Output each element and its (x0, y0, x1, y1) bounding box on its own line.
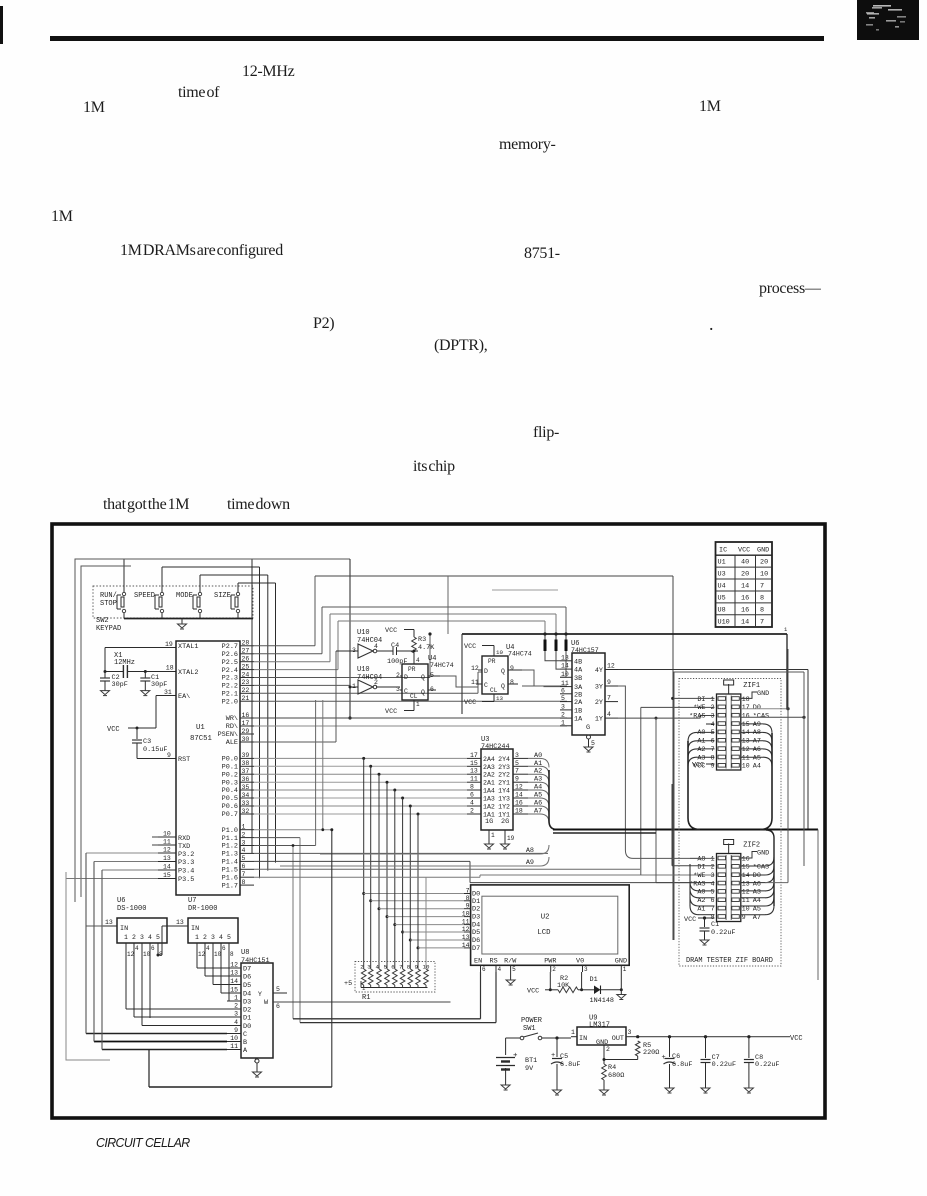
ground C6 (665, 1088, 674, 1093)
svg-text:4A: 4A (574, 667, 583, 675)
pin assignment table (716, 542, 773, 627)
svg-text:R/W: R/W (504, 958, 517, 966)
wire keypad column (162, 567, 260, 878)
svg-text:17: 17 (242, 720, 250, 727)
svg-text:14: 14 (561, 663, 569, 670)
wire P1.4 row (254, 861, 715, 882)
svg-text:4: 4 (711, 880, 715, 887)
svg-text:2: 2 (234, 1003, 238, 1010)
svg-text:A9: A9 (526, 859, 534, 867)
wire ZIF2 left bundle (690, 864, 715, 915)
wire WR net (254, 717, 567, 719)
routing rect left outer (75, 559, 350, 902)
svg-text:1: 1 (561, 719, 565, 726)
LCD bottom pins (474, 958, 627, 974)
ground U3 1G (485, 830, 496, 849)
svg-text:15: 15 (470, 760, 478, 767)
capacitor C1 30pF (140, 672, 167, 691)
svg-text:C6: C6 (672, 1053, 680, 1061)
svg-text:1: 1 (784, 626, 788, 633)
svg-text:30pF: 30pF (112, 681, 128, 689)
svg-text:1: 1 (362, 985, 366, 992)
svg-text:3: 3 (711, 872, 715, 879)
wire P2.2 net (254, 684, 350, 686)
mux U8 74HC151 (227, 949, 451, 1072)
svg-text:9: 9 (607, 679, 611, 686)
wire P1.2 net (254, 700, 316, 1019)
svg-text:D2: D2 (472, 906, 480, 914)
output rail to VCC (636, 1035, 803, 1043)
svg-text:2Y4: 2Y4 (498, 756, 510, 763)
svg-text:C: C (243, 1031, 247, 1039)
svg-text:A8: A8 (697, 855, 705, 863)
svg-text:P0.6: P0.6 (222, 803, 238, 811)
svg-text:ZIF1: ZIF1 (743, 682, 760, 690)
svg-text:1: 1 (711, 696, 715, 703)
wire data drops to LCD and R1 (362, 758, 464, 969)
svg-text:10: 10 (561, 671, 569, 678)
svg-text:U8: U8 (718, 606, 726, 614)
zif socket ZIF2 (689, 840, 769, 922)
svg-text:7: 7 (242, 871, 246, 878)
svg-text:0.22uF: 0.22uF (755, 1061, 779, 1069)
capacitor C5 6.8uF (551, 1038, 580, 1090)
wire P1.3 row (254, 852, 548, 854)
svg-text:P1.6: P1.6 (222, 874, 238, 882)
U1 P3 pins (158, 831, 176, 880)
svg-text:EA\: EA\ (178, 693, 190, 701)
wire RXD TXD (152, 837, 158, 845)
svg-text:STOP: STOP (100, 600, 117, 608)
svg-text:1Y4: 1Y4 (498, 788, 510, 795)
crystal X1 12MHz (114, 652, 135, 678)
svg-text:C: C (484, 682, 488, 689)
svg-text:VCC: VCC (790, 1035, 803, 1043)
resistor network R1 (344, 962, 435, 1003)
svg-text:D5: D5 (243, 982, 251, 990)
svg-text:VCC: VCC (385, 627, 397, 635)
svg-text:1: 1 (623, 966, 627, 973)
svg-text:U2: U2 (541, 914, 550, 922)
svg-text:8: 8 (711, 754, 715, 761)
svg-text:LCD: LCD (537, 929, 551, 937)
svg-text:PR: PR (488, 658, 496, 665)
svg-text:8: 8 (242, 879, 246, 886)
VCC U4b PR (464, 643, 494, 656)
svg-text:GND: GND (757, 850, 769, 858)
wire ZIF2 RAS (656, 882, 715, 884)
svg-text:P0.0: P0.0 (222, 756, 238, 764)
svg-text:13: 13 (230, 970, 238, 977)
svg-text:D1: D1 (472, 898, 480, 906)
wire ZIF1 DI (671, 697, 714, 700)
svg-text:R1: R1 (362, 994, 370, 1002)
svg-text:A6: A6 (753, 880, 761, 888)
svg-text:9: 9 (234, 1027, 238, 1034)
wire ZIF1 right bundle A4-A8 (741, 724, 772, 830)
svg-text:D3: D3 (243, 999, 251, 1007)
ground U6 (584, 747, 593, 752)
svg-text:A0: A0 (697, 729, 705, 737)
wire ZIF1 WE long (641, 707, 715, 875)
svg-text:P0.1: P0.1 (222, 764, 238, 772)
svg-text:11: 11 (230, 1043, 238, 1050)
svg-text:15: 15 (742, 864, 750, 871)
wire P1.1 net (254, 838, 300, 1023)
delay line U7 DR-1000 (174, 897, 238, 958)
svg-text:3: 3 (211, 934, 215, 941)
wire R5 to GND pin (603, 1056, 638, 1061)
wire ZIF1 D0 (741, 707, 790, 710)
svg-text:U10: U10 (357, 666, 370, 674)
svg-text:19: 19 (507, 835, 515, 842)
svg-text:C3: C3 (143, 738, 151, 746)
flipflop U4b 74HC74 (471, 644, 532, 702)
svg-text:2A4: 2A4 (483, 756, 495, 763)
svg-text:P1.7: P1.7 (222, 882, 238, 890)
svg-text:1Y: 1Y (595, 716, 603, 724)
svg-text:3B: 3B (574, 675, 582, 683)
U1 P0 port pins (222, 752, 254, 819)
svg-text:*RAS: *RAS (689, 713, 705, 721)
svg-text:12: 12 (127, 951, 135, 958)
svg-text:4.7K: 4.7K (418, 644, 435, 652)
svg-text:11: 11 (561, 680, 569, 687)
svg-text:+: + (513, 1052, 518, 1060)
svg-text:12: 12 (163, 847, 171, 854)
svg-text:IN: IN (191, 925, 199, 933)
svg-text:D1: D1 (590, 976, 598, 984)
svg-text:4: 4 (135, 945, 139, 952)
svg-text:D5: D5 (472, 929, 480, 937)
ground U8 (253, 1072, 262, 1077)
svg-text:10: 10 (230, 1035, 238, 1042)
svg-text:12: 12 (742, 889, 750, 896)
svg-text:P2.0: P2.0 (222, 698, 238, 706)
svg-text:C1: C1 (711, 921, 719, 929)
U1 P1 port pins (222, 824, 254, 891)
keypad ground (178, 619, 187, 630)
svg-text:12: 12 (607, 663, 615, 670)
svg-text:100pF: 100pF (387, 658, 407, 666)
wire U6 4Y (618, 670, 808, 830)
wire ZIF2 A8 curve (690, 857, 715, 859)
svg-text:35: 35 (242, 784, 250, 791)
svg-text:16: 16 (741, 606, 749, 614)
wire ZIF2 DI (672, 784, 715, 866)
svg-text:A0: A0 (697, 889, 705, 897)
svg-text:10: 10 (143, 951, 151, 958)
svg-text:3Y: 3Y (595, 684, 603, 692)
svg-text:2A2: 2A2 (483, 772, 495, 779)
wire U6 1Y (655, 717, 658, 883)
diode D1 1N4148 (578, 972, 623, 1005)
wire ZIF1 left bundle A0-A3 (688, 732, 715, 829)
ground C1 (141, 691, 150, 696)
svg-text:14: 14 (741, 618, 749, 626)
svg-text:D4: D4 (243, 991, 251, 999)
svg-text:A3: A3 (753, 889, 761, 897)
svg-text:2Y2: 2Y2 (498, 772, 510, 779)
wire P3.4 (102, 869, 158, 871)
capacitor C7 0.22uF (701, 1037, 737, 1088)
svg-text:3: 3 (242, 839, 246, 846)
svg-text:MODE: MODE (176, 592, 193, 600)
svg-text:12MHz: 12MHz (114, 659, 135, 667)
svg-text:U1: U1 (196, 724, 205, 732)
svg-text:29: 29 (242, 728, 250, 735)
wire RST (137, 752, 176, 759)
svg-text:7: 7 (760, 618, 764, 626)
svg-text:LM317: LM317 (589, 1022, 610, 1030)
svg-text:11: 11 (471, 679, 479, 686)
svg-text:14: 14 (515, 792, 523, 799)
svg-text:87C51: 87C51 (190, 735, 213, 743)
schematic frame (52, 524, 825, 1118)
svg-text:2: 2 (711, 704, 715, 711)
ground R4 (600, 1090, 609, 1095)
wire mid thick bus (462, 626, 788, 714)
svg-text:D: D (484, 668, 488, 675)
svg-text:3: 3 (515, 752, 519, 759)
svg-text:SIZE: SIZE (214, 592, 231, 600)
svg-text:TXD: TXD (178, 843, 190, 851)
svg-text:D6: D6 (243, 974, 251, 982)
svg-text:2: 2 (203, 934, 207, 941)
svg-text:16: 16 (742, 855, 750, 862)
svg-text:VCC: VCC (385, 708, 397, 716)
body text fragments (242, 63, 294, 81)
svg-text:5: 5 (515, 760, 519, 767)
svg-text:12: 12 (230, 962, 238, 969)
svg-text:16: 16 (741, 594, 749, 602)
svg-text:13: 13 (561, 654, 569, 661)
wire P2.5 net (254, 614, 556, 662)
svg-text:9: 9 (515, 776, 519, 783)
svg-text:4: 4 (470, 800, 474, 807)
wire XTAL1 (105, 641, 176, 672)
svg-text:2A3: 2A3 (483, 764, 495, 771)
svg-text:POWER: POWER (521, 1017, 543, 1025)
capacitor C4 100pF (377, 642, 418, 666)
svg-text:P0.4: P0.4 (222, 787, 238, 795)
svg-text:17: 17 (742, 704, 750, 711)
svg-text:1Y3: 1Y3 (498, 796, 510, 803)
svg-text:PWR: PWR (544, 958, 556, 966)
svg-text:8: 8 (760, 606, 764, 614)
svg-text:11: 11 (470, 776, 478, 783)
buffer U3 74HC244 (467, 736, 542, 830)
svg-text:2: 2 (606, 1046, 610, 1053)
svg-text:5: 5 (276, 986, 280, 993)
svg-text:2A: 2A (574, 699, 583, 707)
right outer verticals (817, 830, 819, 981)
svg-text:2Y3: 2Y3 (498, 764, 510, 771)
svg-text:23: 23 (242, 679, 250, 686)
svg-text:4: 4 (206, 945, 210, 952)
svg-text:3: 3 (561, 703, 565, 710)
svg-text:C: C (404, 688, 408, 695)
svg-text:10: 10 (163, 831, 171, 838)
svg-text:IC: IC (719, 547, 727, 555)
svg-text:9: 9 (510, 665, 514, 672)
svg-text:37: 37 (242, 768, 250, 775)
svg-text:P1.0: P1.0 (222, 827, 238, 835)
vertical CAS net (803, 672, 805, 866)
VCC node (107, 726, 156, 734)
vertical D0 net (765, 649, 788, 883)
svg-text:4: 4 (234, 1019, 238, 1026)
svg-text:SW2: SW2 (96, 617, 109, 625)
svg-text:2: 2 (711, 864, 715, 871)
wire A8 row (320, 845, 549, 855)
svg-text:2: 2 (132, 934, 136, 941)
svg-text:KEYPAD: KEYPAD (96, 625, 121, 633)
svg-text:33: 33 (242, 800, 250, 807)
svg-text:20: 20 (760, 559, 768, 567)
svg-text:74HC244: 74HC244 (481, 743, 510, 751)
wire ZIF2 WE (0, 0, 1, 1)
svg-text:2: 2 (374, 679, 378, 686)
delay line U6 DS-1000 (103, 897, 167, 958)
VCC U4b CL (464, 694, 494, 707)
svg-text:GND: GND (757, 547, 769, 555)
svg-text:A4: A4 (753, 763, 761, 771)
svg-text:Q: Q (421, 689, 425, 696)
svg-text:19: 19 (165, 641, 173, 648)
svg-text:*WE: *WE (693, 872, 705, 880)
svg-text:R3: R3 (418, 636, 426, 644)
thick select wires (86, 853, 227, 1050)
svg-text:4: 4 (148, 934, 152, 941)
svg-text:13: 13 (496, 695, 503, 702)
wire ZIF1 RAS long (618, 716, 715, 719)
svg-text:17: 17 (470, 752, 478, 759)
svg-text:RD\: RD\ (226, 723, 238, 731)
svg-text:5: 5 (561, 695, 565, 702)
keypad common bus (124, 618, 253, 620)
svg-text:10: 10 (214, 951, 222, 958)
svg-text:VCC: VCC (527, 988, 539, 996)
wire ALE net (254, 651, 358, 742)
svg-text:25: 25 (242, 663, 250, 670)
svg-text:2: 2 (561, 712, 565, 719)
svg-text:21: 21 (242, 695, 250, 702)
svg-text:WR\: WR\ (226, 715, 238, 723)
left margin tick (0, 6, 3, 44)
wire ZIF2 right bundle (741, 830, 774, 915)
svg-text:SPEED: SPEED (134, 592, 155, 600)
svg-text:Q: Q (501, 683, 505, 690)
svg-text:4: 4 (242, 847, 246, 854)
svg-text:P1.1: P1.1 (222, 835, 238, 843)
svg-text:4: 4 (607, 711, 611, 718)
svg-text:5: 5 (512, 966, 516, 973)
svg-text:20: 20 (741, 571, 749, 579)
wire P2.4 net (254, 621, 545, 670)
svg-text:18: 18 (515, 808, 523, 815)
svg-text:P2.7: P2.7 (222, 643, 238, 651)
svg-text:A: A (243, 1047, 248, 1055)
svg-text:U10: U10 (357, 629, 370, 637)
svg-text:VCC: VCC (107, 726, 120, 734)
svg-text:XTAL2: XTAL2 (178, 669, 198, 677)
svg-text:1: 1 (491, 832, 495, 839)
svg-text:9: 9 (167, 752, 171, 759)
svg-text:V0: V0 (576, 958, 584, 966)
wire ZIF1 CAS (741, 716, 806, 719)
svg-text:DRAM TESTER ZIF BOARD: DRAM TESTER ZIF BOARD (686, 957, 773, 965)
capacitor C2 30pF (100, 672, 128, 691)
svg-text:VCC: VCC (464, 643, 476, 651)
wire EA (156, 689, 176, 728)
svg-text:A9: A9 (753, 721, 761, 729)
resistor R3 4.7K (412, 636, 436, 664)
U1 control pins (218, 712, 254, 747)
svg-text:GND: GND (757, 690, 769, 698)
svg-text:CL: CL (410, 693, 418, 700)
wire ZIF1 GND elbow (741, 690, 769, 698)
svg-text:40: 40 (741, 559, 749, 567)
ground C5 (553, 1090, 562, 1095)
svg-text:0.22uF: 0.22uF (712, 1061, 736, 1069)
svg-text:7: 7 (607, 695, 611, 702)
wire P3.2 (86, 852, 158, 854)
svg-text:1A2: 1A2 (483, 804, 495, 811)
wire ZIF1 VCC (692, 762, 715, 770)
svg-text:6.8uF: 6.8uF (560, 1061, 580, 1069)
svg-text:2Y: 2Y (595, 699, 603, 707)
wire P1.5 row (254, 868, 640, 870)
svg-text:10: 10 (742, 763, 750, 770)
svg-text:26: 26 (242, 656, 250, 663)
svg-text:EN: EN (474, 958, 482, 966)
switch SW1 POWER (506, 1017, 571, 1040)
thick A bus (553, 830, 818, 834)
svg-text:220Ω: 220Ω (643, 1049, 659, 1057)
svg-text:39: 39 (242, 752, 250, 759)
op U1 87C51 box (176, 641, 240, 895)
svg-text:A5: A5 (753, 905, 761, 913)
svg-text:CL: CL (490, 687, 498, 694)
svg-text:P2.5: P2.5 (222, 659, 238, 667)
svg-text:5: 5 (591, 740, 595, 747)
label DRAM TESTER ZIF BOARD (686, 957, 773, 965)
svg-text:6: 6 (222, 945, 226, 952)
svg-text:30pF: 30pF (151, 681, 167, 689)
svg-text:VCC: VCC (684, 916, 696, 924)
ground C8 (744, 1088, 753, 1093)
SW2 KEYPAD label (96, 617, 121, 633)
ground D1 (617, 990, 626, 1000)
svg-text:*CAS: *CAS (753, 713, 769, 721)
wire P0 bus to U3 (254, 757, 467, 816)
wire A9 row (280, 857, 549, 867)
svg-text:2G: 2G (501, 818, 509, 826)
zif socket ZIF1 (689, 680, 769, 771)
wire U4a Q to U4b (440, 676, 478, 687)
switch SIZE (214, 592, 240, 619)
svg-text:+5: +5 (344, 980, 352, 988)
svg-text:*WE: *WE (693, 704, 705, 712)
CIRCUIT CELLAR footer (96, 1135, 190, 1150)
wires U7 pins to U8 (197, 949, 229, 1001)
svg-text:6: 6 (482, 966, 486, 973)
svg-text:DR-1000: DR-1000 (188, 905, 217, 913)
svg-text:16: 16 (742, 713, 750, 720)
svg-text:1A4: 1A4 (483, 788, 495, 795)
svg-text:P0.7: P0.7 (222, 811, 238, 819)
